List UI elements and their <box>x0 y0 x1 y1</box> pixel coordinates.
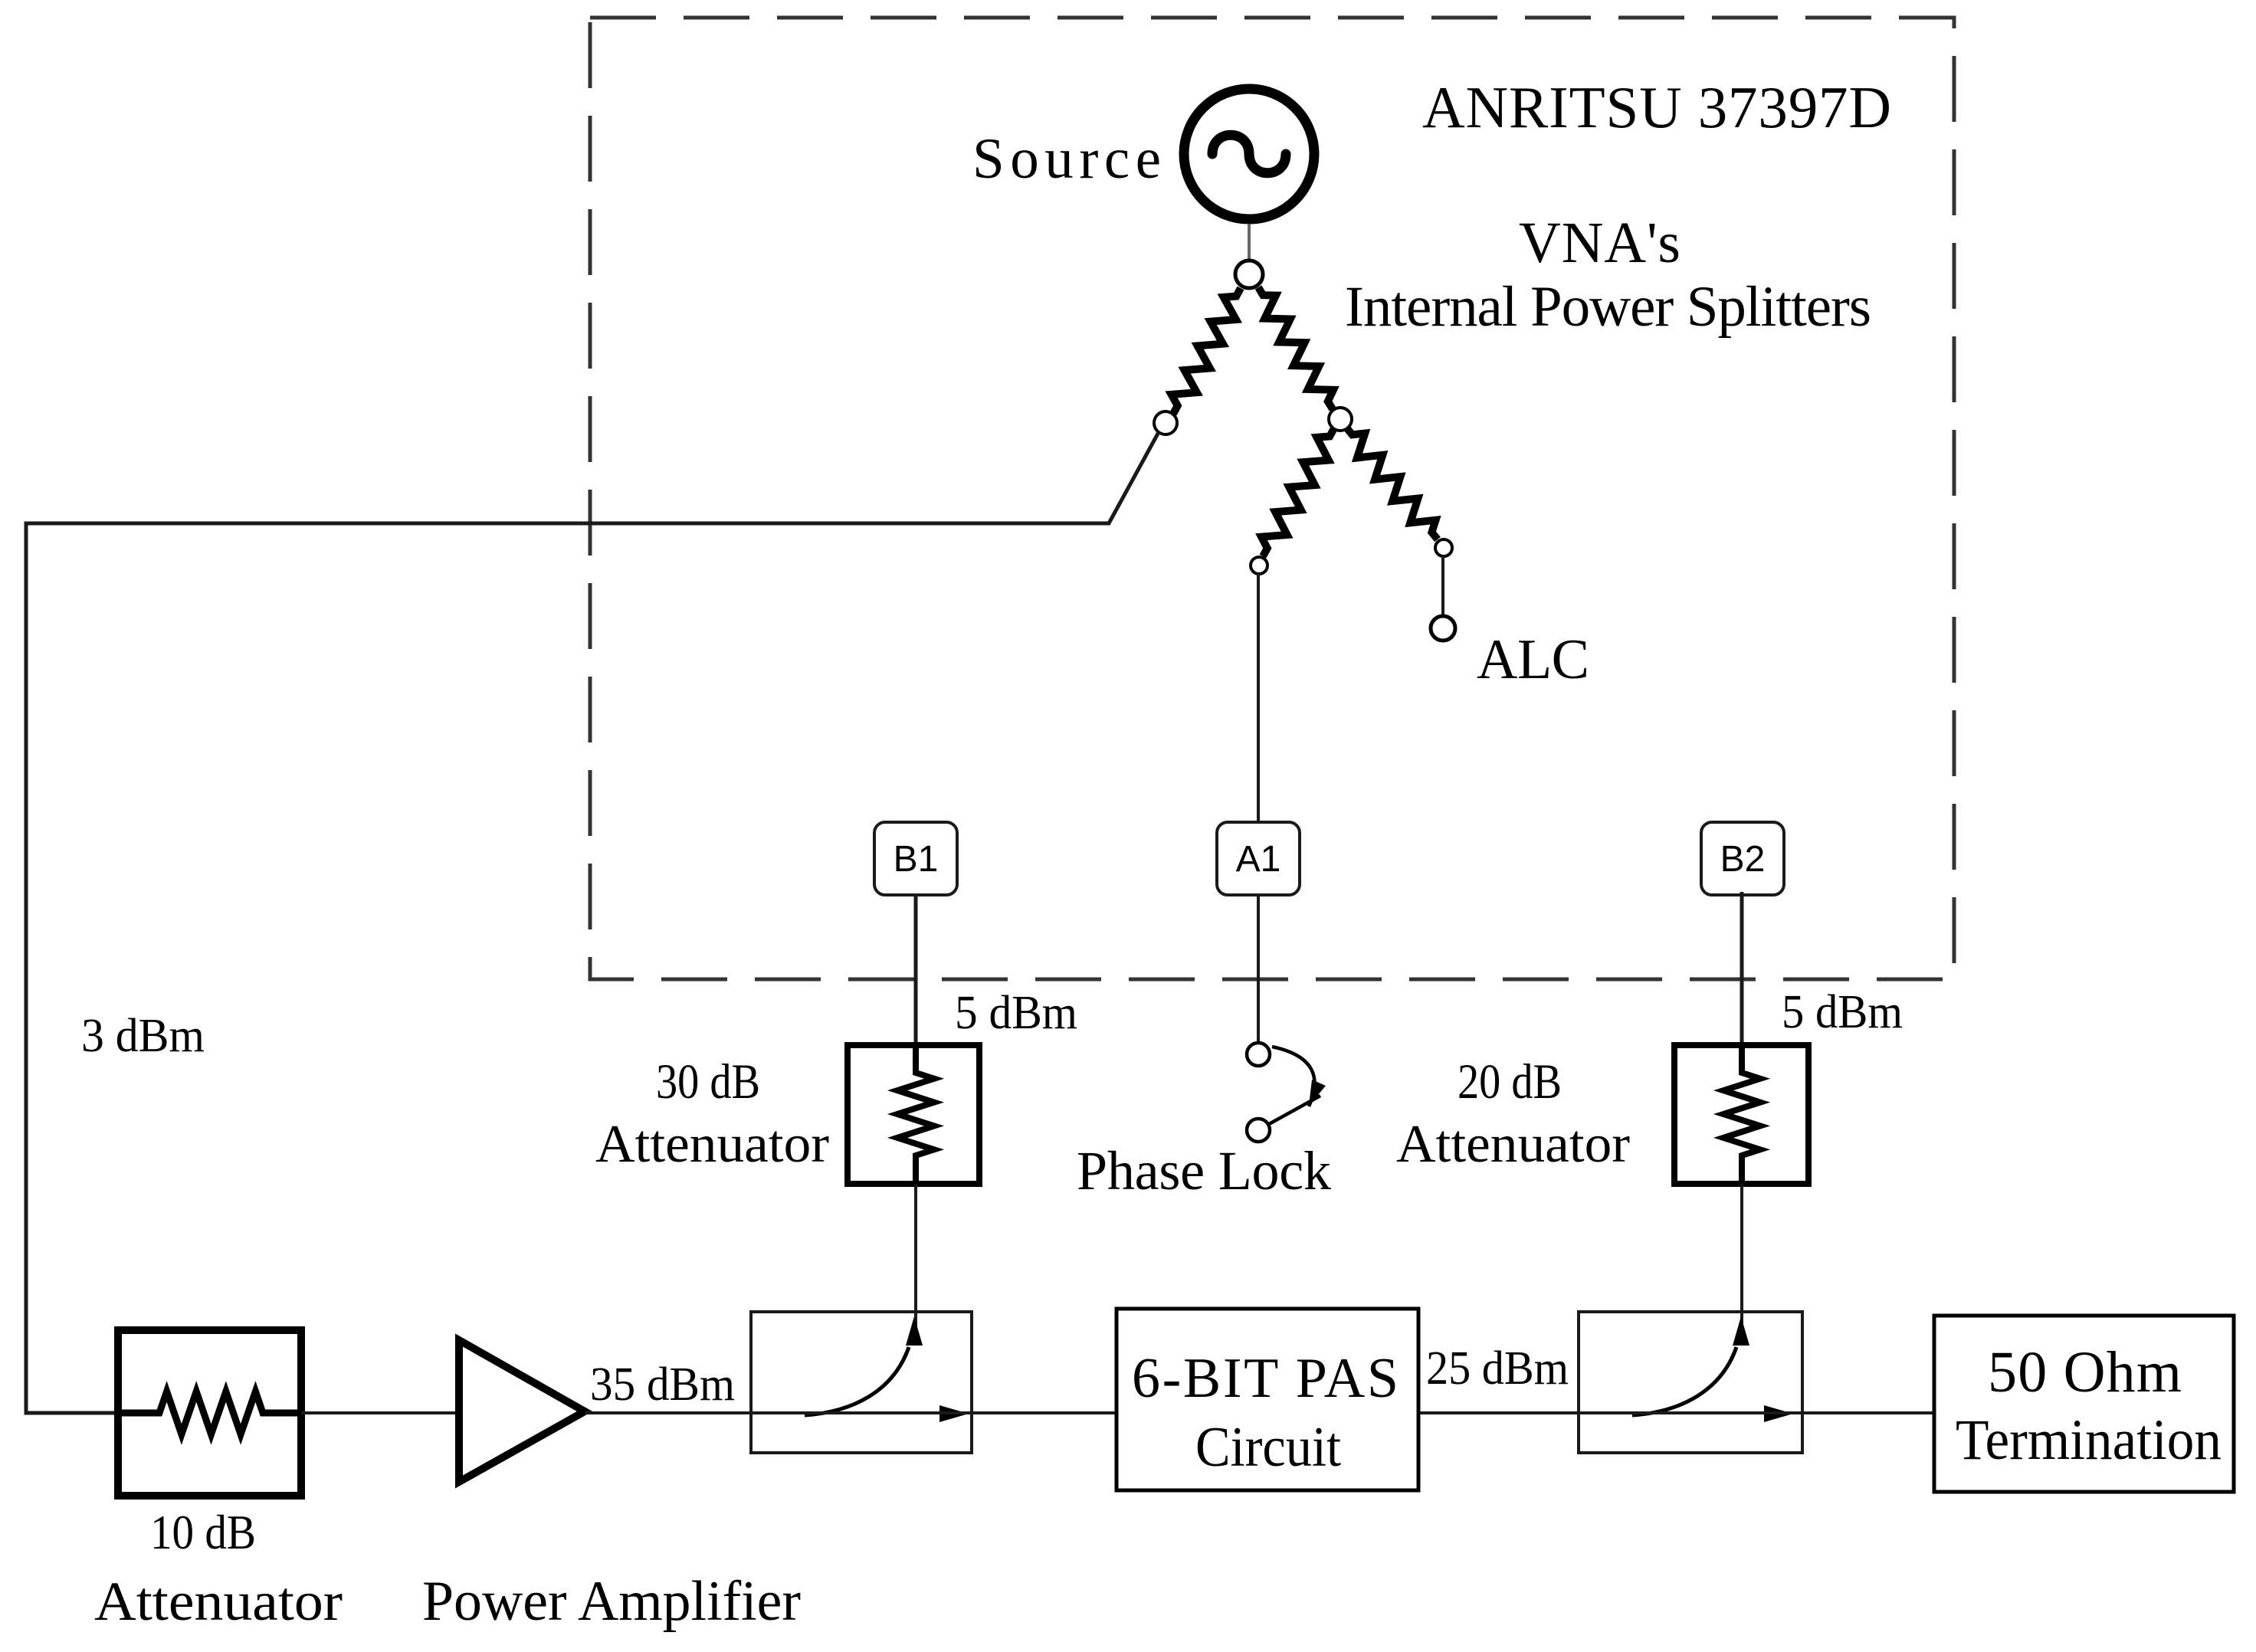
node ALC terminal <box>1431 616 1455 641</box>
svg-text:25 dBm: 25 dBm <box>1426 1342 1569 1395</box>
svg-text:20 dB: 20 dB <box>1458 1054 1562 1110</box>
wire coupler1 main line <box>749 1411 1117 1414</box>
svg-text:Attenuator: Attenuator <box>1396 1115 1630 1174</box>
amplifier PA <box>459 1340 585 1482</box>
resistor splitter2 right arm <box>1346 428 1438 539</box>
attenuator AT2 20 dB <box>1674 1045 1808 1184</box>
attenuator AT1 30 dB <box>848 1045 979 1184</box>
svg-text:50 Ohm: 50 Ohm <box>1988 1340 2182 1405</box>
switch phase lock <box>1247 1043 1326 1142</box>
svg-text:ANRITSU 37397D: ANRITSU 37397D <box>1422 74 1891 140</box>
svg-text:5 dBm: 5 dBm <box>955 987 1077 1039</box>
svg-text:VNA's: VNA's <box>1519 211 1681 275</box>
port B1 <box>874 822 957 895</box>
attenuator AT3 10 dB <box>118 1330 301 1496</box>
svg-text:Attenuator: Attenuator <box>595 1115 829 1174</box>
node splitter2 right output <box>1435 539 1452 556</box>
svg-text:3 dBm: 3 dBm <box>81 1010 205 1062</box>
svg-text:Termination: Termination <box>1956 1408 2222 1472</box>
port A1 <box>1217 822 1300 895</box>
resistor splitter2 left arm <box>1261 428 1334 556</box>
block 6-BIT PAS Circuit <box>1117 1309 1418 1490</box>
svg-text:Attenuator: Attenuator <box>94 1571 343 1632</box>
wire ALC stub <box>1441 556 1444 616</box>
VNA enclosure dashed box <box>590 18 1954 979</box>
resistor splitter1 left arm <box>1172 288 1241 414</box>
coupler DC1 <box>751 1312 972 1453</box>
port B2 <box>1701 822 1784 895</box>
coupler DC2 <box>1579 1312 1802 1453</box>
svg-text:Internal Power Splitters: Internal Power Splitters <box>1345 275 1871 339</box>
wire 20dB attenuator to coupler2 <box>1740 1184 1743 1339</box>
wire 10dB attenuator to amplifier <box>301 1411 459 1414</box>
wire source to splitter node <box>1248 224 1251 261</box>
wire splitter1 left output to reference path <box>26 432 1159 1413</box>
svg-text:Power Amplifier: Power Amplifier <box>422 1570 801 1633</box>
wire splitter2 left output to A1 <box>1257 574 1260 822</box>
svg-text:A1: A1 <box>1236 839 1281 880</box>
svg-text:6-BIT PAS: 6-BIT PAS <box>1132 1347 1399 1410</box>
block 50 Ohm Termination <box>1934 1316 2234 1492</box>
wire B2 to 20dB attenuator <box>1740 892 1744 1048</box>
wire 6-BIT to coupler2 <box>1420 1411 1579 1414</box>
svg-text:B2: B2 <box>1720 839 1766 880</box>
source U1 <box>1184 89 1314 219</box>
svg-text:B1: B1 <box>894 839 939 880</box>
svg-text:Circuit: Circuit <box>1195 1416 1341 1479</box>
svg-text:5 dBm: 5 dBm <box>1782 986 1903 1038</box>
node splitter2 left output <box>1251 557 1267 574</box>
svg-text:Phase Lock: Phase Lock <box>1077 1140 1331 1201</box>
svg-text:30 dB: 30 dB <box>656 1054 760 1110</box>
wire 30dB attenuator to coupler1 <box>914 1184 917 1339</box>
node splitter1 left output <box>1154 411 1177 434</box>
resistor splitter1 right arm <box>1258 287 1333 409</box>
svg-text:10 dB: 10 dB <box>150 1505 256 1559</box>
svg-text:ALC: ALC <box>1477 628 1589 691</box>
wire A1 to phase lock switch <box>1257 895 1260 1042</box>
wire amplifier to coupler1 <box>585 1411 749 1414</box>
node junction splitter1 to splitter2 <box>1329 408 1352 431</box>
svg-text:35 dBm: 35 dBm <box>590 1359 735 1411</box>
wire coupler2 main line <box>1579 1411 1933 1414</box>
node splitter input <box>1235 261 1263 288</box>
wire B1 to 30dB attenuator <box>914 895 918 1048</box>
